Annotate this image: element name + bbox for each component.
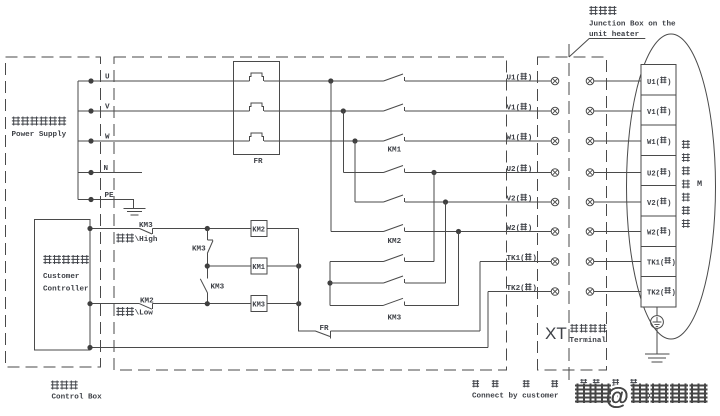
svg-text:@: @: [606, 384, 629, 411]
KM2 contact on W2: [384, 225, 404, 232]
KM2 contact on U2: [384, 166, 404, 173]
svg-text:): ): [528, 196, 533, 204]
watermark 头条@暖通南社: [575, 384, 708, 411]
svg-text:KM3: KM3: [388, 315, 402, 323]
label motor terminal TK1(色): [647, 257, 676, 267]
node KM1 bus: [296, 263, 301, 268]
KM2 contact on V2: [384, 195, 404, 202]
KM3 contact row1: [384, 255, 404, 262]
svg-text:): ): [667, 109, 671, 117]
svg-text:FR: FR: [320, 325, 330, 333]
KM1 contact on U: [384, 74, 404, 81]
label 低速\Low: [116, 307, 153, 318]
label U2(色) wire tag: [507, 164, 533, 174]
wire terminal to motor box TK1: [594, 261, 641, 263]
wire V drop to U2: [342, 111, 344, 173]
terminal XT factory side V2: [586, 198, 594, 206]
node U to vertical drop: [328, 78, 333, 83]
svg-text:U1(: U1(: [507, 75, 521, 83]
node controller return: [87, 345, 92, 350]
wire V2 row: [355, 201, 551, 203]
terminal XT customer side TK2: [551, 288, 559, 296]
svg-text:Terminal: Terminal: [570, 337, 607, 345]
svg-text:\High: \High: [135, 236, 158, 244]
FR heater element on U: [250, 73, 264, 81]
label motor terminal V2(色): [647, 198, 671, 208]
svg-text:TK2(: TK2(: [647, 289, 664, 297]
wire KM1 rung to low: [206, 266, 208, 304]
wire U2 row: [343, 172, 551, 174]
svg-text:): ): [528, 75, 533, 83]
label motor terminal V1(色): [647, 107, 671, 117]
KM3 contact row3: [384, 298, 404, 305]
svg-text:): ): [667, 200, 671, 208]
svg-text:TK2(: TK2(: [507, 285, 525, 293]
customer/factory boundary dashed line: [568, 44, 570, 384]
terminal XT customer side W1: [551, 137, 559, 145]
svg-text:V1(: V1(: [507, 105, 521, 113]
svg-text:KM3: KM3: [192, 246, 206, 254]
svg-text:\Low: \Low: [135, 310, 154, 318]
svg-text:KM1: KM1: [252, 264, 265, 272]
svg-text:W: W: [105, 134, 110, 142]
label V2(色) wire tag: [507, 194, 533, 204]
label 控制箱: [51, 381, 59, 390]
node W2 star: [456, 229, 461, 234]
svg-text:TK1(: TK1(: [647, 259, 664, 267]
svg-text:W2(: W2(: [647, 229, 660, 237]
svg-text:): ): [528, 166, 533, 174]
svg-text:U2(: U2(: [647, 170, 660, 178]
wire star row3: [330, 304, 459, 306]
wire KM1 coil row: [207, 265, 298, 267]
leader line junction box: [569, 39, 645, 58]
wire KM2 coil to bus: [267, 228, 299, 230]
terminal XT dashed enclosure box: [538, 57, 607, 370]
customer controller box: [35, 220, 91, 351]
svg-text:U2(: U2(: [507, 166, 521, 174]
svg-text:KM3: KM3: [139, 222, 153, 230]
power-supply dashed enclosure box: [6, 57, 101, 367]
ground symbol PE input: [124, 208, 146, 215]
terminal XT customer side U1: [551, 77, 559, 85]
label 客户连接: [472, 380, 479, 387]
node V bracket: [88, 108, 93, 113]
wire N neutral: [78, 172, 142, 174]
label motor terminal W2(色): [647, 227, 671, 237]
label W1(色) wire tag: [507, 133, 533, 143]
svg-text:W2(: W2(: [507, 225, 521, 233]
wire terminal to motor box W2: [594, 231, 641, 233]
wire W2 row: [331, 231, 551, 233]
wire V phase: [78, 110, 551, 112]
terminal XT customer side V1: [551, 107, 559, 115]
svg-text:): ): [528, 105, 533, 113]
motor terminal block box: [641, 65, 676, 308]
svg-text:W1(: W1(: [507, 135, 521, 143]
label 用户控制器: [43, 255, 51, 264]
FR heater element on V: [250, 103, 264, 111]
svg-text:KM3: KM3: [252, 302, 265, 310]
node KM3 bus: [296, 301, 301, 306]
wire coil bus: [299, 229, 480, 332]
svg-text:V2(: V2(: [507, 196, 521, 204]
node U bracket: [88, 78, 93, 83]
FR heater element on W: [250, 133, 264, 141]
terminal XT factory side U1: [586, 77, 594, 85]
motor M outline ellipse: [627, 34, 716, 339]
node star bus: [327, 280, 332, 285]
wire high-speed command: [90, 228, 251, 230]
motor PE terminal symbol: [651, 307, 664, 328]
label TK2(色) wire tag: [507, 283, 537, 293]
label 接线端子: [570, 324, 578, 333]
wire U drop to W2: [330, 81, 332, 232]
label 高速\High: [116, 234, 157, 245]
wire star row2 riser: [445, 202, 447, 283]
wire high to KM1 rung: [206, 229, 208, 267]
node N bracket: [88, 170, 93, 175]
svg-text:KM2: KM2: [388, 238, 402, 246]
KM3 aux contact lower: [200, 279, 207, 293]
terminal XT factory side TK2: [586, 288, 594, 296]
label motor terminal U2(色): [647, 168, 671, 178]
label V1(色) wire tag: [507, 103, 533, 113]
svg-text:Connect by customer: Connect by customer: [472, 393, 559, 401]
KM3 star left bus: [329, 262, 331, 306]
wire terminal to motor box V2: [594, 201, 641, 203]
node V to vertical drop: [341, 108, 346, 113]
label U1(色) wire tag: [507, 73, 533, 83]
coil KM1: [251, 258, 267, 274]
terminal XT factory side TK1: [586, 258, 594, 266]
svg-text:U: U: [105, 74, 110, 82]
svg-text:): ): [671, 289, 675, 297]
svg-text:KM2: KM2: [252, 227, 265, 235]
terminal XT factory side V1: [586, 107, 594, 115]
wire low-speed command: [90, 303, 299, 305]
svg-text:PE: PE: [105, 192, 115, 200]
svg-text:V: V: [105, 104, 110, 112]
label W2(色) wire tag: [507, 223, 533, 233]
wire terminal to motor box TK2: [594, 291, 641, 293]
svg-text:N: N: [104, 165, 109, 173]
label 工厂连接: [580, 379, 587, 386]
svg-text:V2(: V2(: [647, 200, 660, 208]
svg-text:): ): [532, 285, 537, 293]
wire motor PE to ground: [656, 328, 658, 354]
wire star row1: [330, 261, 434, 263]
terminal XT factory side W2: [586, 228, 594, 236]
control box dashed enclosure: [114, 57, 507, 370]
label motor terminal U1(色): [647, 77, 671, 87]
svg-text:KM2: KM2: [140, 297, 154, 305]
power input bus bracket: [77, 81, 79, 200]
KM2 aux contact low-speed: [140, 304, 153, 310]
label 三相电机引出线 vertical: [682, 140, 690, 149]
coil KM3: [251, 296, 267, 312]
svg-text:): ): [528, 225, 533, 233]
node controller low: [87, 301, 92, 306]
wire W phase: [78, 140, 551, 142]
terminal XT factory side U2: [586, 169, 594, 177]
svg-text:): ): [667, 170, 671, 178]
label motor terminal TK2(色): [647, 287, 676, 297]
wire terminal to motor box U2: [594, 172, 641, 174]
wire star row2: [330, 282, 446, 284]
FR NC contact: [315, 331, 330, 337]
wire star row1 riser: [433, 173, 435, 262]
svg-text:M: M: [697, 179, 702, 189]
svg-text:): ): [667, 79, 671, 87]
svg-text:TK1(: TK1(: [507, 255, 525, 263]
svg-text:Controller: Controller: [43, 286, 89, 294]
svg-text:U1(: U1(: [647, 79, 660, 87]
label 三相电源输入 (three-phase power input): [12, 117, 20, 126]
svg-text:): ): [667, 229, 671, 237]
svg-text:FR: FR: [254, 158, 264, 166]
KM1 contact on V: [384, 104, 404, 111]
node high junction: [205, 226, 210, 231]
terminal XT customer side U2: [551, 169, 559, 177]
svg-text:): ): [528, 135, 533, 143]
ground symbol motor: [645, 354, 670, 362]
node U2 star: [431, 170, 436, 175]
wire W drop to V2: [354, 141, 356, 202]
terminal XT customer side V2: [551, 198, 559, 206]
node W bracket: [88, 138, 93, 143]
svg-text:KM3: KM3: [211, 284, 225, 292]
svg-text:Customer: Customer: [43, 273, 80, 281]
terminal XT customer side W2: [551, 228, 559, 236]
KM3 contact row2: [384, 276, 404, 283]
node low junction: [205, 301, 210, 306]
terminal XT factory side W1: [586, 137, 594, 145]
wire terminal to motor box W1: [594, 140, 641, 142]
wire TK1 row: [480, 262, 551, 332]
node controller high: [87, 226, 92, 231]
svg-text:KM1: KM1: [388, 147, 402, 155]
motor terminal block dividers: [641, 95, 676, 277]
svg-text:Power Supply: Power Supply: [12, 131, 67, 139]
svg-text:unit heater: unit heater: [589, 31, 640, 39]
label TK1(色) wire tag: [507, 253, 537, 263]
wire PE: [78, 200, 133, 209]
KM3 aux contact upper: [207, 239, 213, 241]
thermal overload relay FR box: [234, 62, 280, 155]
label motor terminal W1(色): [647, 137, 671, 147]
svg-text:Junction Box on the: Junction Box on the: [589, 21, 676, 29]
svg-text:V1(: V1(: [647, 109, 660, 117]
svg-text:): ): [532, 255, 537, 263]
wire star row3 riser: [458, 232, 460, 306]
node PE bracket: [88, 197, 93, 202]
wire terminal to motor box V1: [594, 110, 641, 112]
KM1 contact on W: [384, 134, 404, 141]
wire terminal to motor box U1: [594, 80, 641, 82]
svg-text:): ): [671, 259, 675, 267]
svg-text:XT: XT: [545, 324, 567, 343]
wire U phase: [78, 80, 551, 82]
svg-text:Control Box: Control Box: [52, 394, 103, 402]
svg-text:W1(: W1(: [647, 139, 660, 147]
label 接线盒: [589, 6, 597, 15]
terminal XT customer side TK1: [551, 258, 559, 266]
node KM1 rung: [205, 263, 210, 268]
node W to vertical drop: [352, 138, 357, 143]
coil KM2: [251, 221, 267, 237]
KM3 aux contact high-speed: [140, 229, 153, 235]
wire TK2 return: [90, 347, 488, 349]
node V2 star: [443, 199, 448, 204]
wire TK2 row: [488, 292, 551, 348]
svg-text:): ): [667, 139, 671, 147]
